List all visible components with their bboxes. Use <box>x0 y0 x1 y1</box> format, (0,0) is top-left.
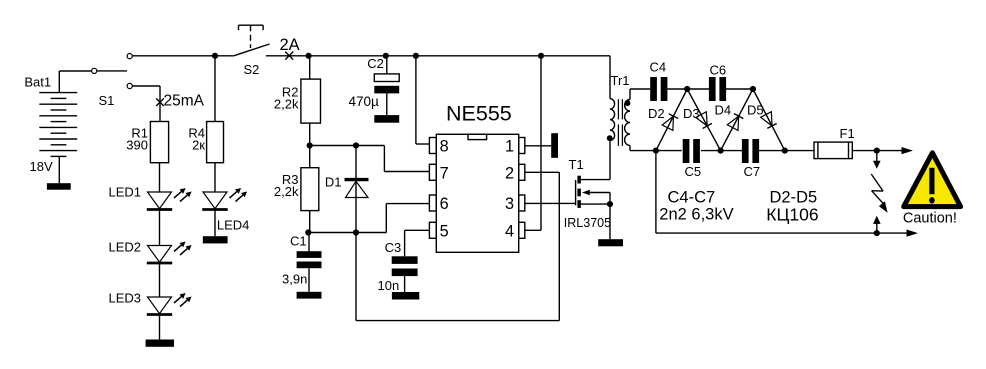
svg-text:2,2k: 2,2k <box>274 184 299 199</box>
svg-text:F1: F1 <box>840 126 855 141</box>
svg-text:C2: C2 <box>367 56 384 71</box>
svg-text:D1: D1 <box>325 175 342 190</box>
svg-text:C6: C6 <box>710 63 727 78</box>
svg-text:Caution!: Caution! <box>903 210 957 226</box>
svg-text:C5: C5 <box>685 164 702 179</box>
svg-text:Bat1: Bat1 <box>24 75 51 90</box>
svg-text:25mA: 25mA <box>164 92 205 109</box>
svg-text:D3: D3 <box>683 106 700 121</box>
svg-text:4: 4 <box>505 222 514 240</box>
svg-text:390: 390 <box>126 138 148 153</box>
svg-text:S2: S2 <box>244 62 260 77</box>
svg-text:IRL3705: IRL3705 <box>564 216 611 230</box>
svg-text:D5: D5 <box>747 103 764 118</box>
svg-text:КЦ106: КЦ106 <box>766 204 818 224</box>
svg-text:2к: 2к <box>192 138 205 153</box>
svg-text:10n: 10n <box>378 278 400 293</box>
svg-text:C3: C3 <box>385 240 402 255</box>
svg-text:Tr1: Tr1 <box>611 73 630 88</box>
svg-text:2,2k: 2,2k <box>274 96 299 111</box>
svg-text:C4-C7: C4-C7 <box>668 188 716 206</box>
svg-text:LED3: LED3 <box>109 291 142 306</box>
svg-text:S1: S1 <box>99 93 115 108</box>
svg-text:470µ: 470µ <box>349 94 380 109</box>
svg-text:7: 7 <box>440 164 449 182</box>
svg-text:D4: D4 <box>715 103 732 118</box>
svg-text:C1: C1 <box>290 234 307 249</box>
svg-text:C4: C4 <box>650 60 667 75</box>
svg-text:LED4: LED4 <box>217 217 250 232</box>
svg-text:3: 3 <box>505 195 514 213</box>
svg-text:NE555: NE555 <box>446 101 512 125</box>
svg-text:2A: 2A <box>280 36 300 54</box>
svg-text:6: 6 <box>440 195 449 213</box>
svg-text:LED2: LED2 <box>109 240 142 255</box>
svg-text:5: 5 <box>440 222 449 240</box>
svg-text:8: 8 <box>440 138 449 156</box>
svg-text:C7: C7 <box>744 164 761 179</box>
svg-text:T1: T1 <box>569 157 584 172</box>
svg-text:18V: 18V <box>30 159 53 174</box>
svg-text:2: 2 <box>505 164 514 182</box>
svg-text:2n2 6,3kV: 2n2 6,3kV <box>659 206 733 224</box>
svg-text:LED1: LED1 <box>109 185 142 200</box>
svg-text:D2: D2 <box>648 106 665 121</box>
svg-text:1: 1 <box>505 138 514 156</box>
svg-text:3,9n: 3,9n <box>282 272 307 287</box>
